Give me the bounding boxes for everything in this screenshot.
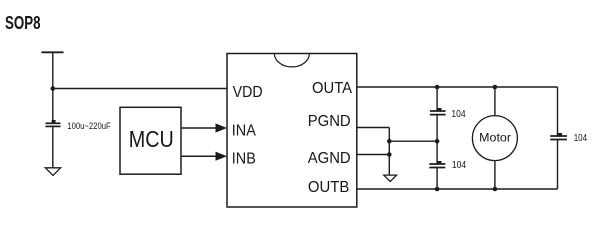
wire OUTB xyxy=(357,188,558,190)
node OUTB/motor xyxy=(493,187,498,192)
MCU box U2 xyxy=(120,107,181,174)
node branch/C2 xyxy=(435,139,440,144)
svg-text:104: 104 xyxy=(452,160,467,171)
svg-text:PGND: PGND xyxy=(308,113,351,130)
node OUTB/C3 xyxy=(435,187,440,192)
svg-text:AGND: AGND xyxy=(308,150,351,167)
node OUTA/C2 xyxy=(435,85,440,90)
capacitor C4 right 104 xyxy=(550,87,567,189)
node PGND/branch xyxy=(387,139,392,144)
node OUTA/motor xyxy=(493,85,498,90)
wire INA with arrow xyxy=(181,123,227,132)
wire PGND xyxy=(357,128,390,176)
power rail VCC bar xyxy=(42,51,64,53)
motor M1 xyxy=(472,87,517,189)
wire INB with arrow xyxy=(181,152,227,161)
svg-text:OUTA: OUTA xyxy=(312,80,352,97)
wire power vertical upper xyxy=(52,52,54,123)
wire cap to ground xyxy=(52,126,54,167)
svg-text:SOP8: SOP8 xyxy=(5,13,41,33)
svg-text:104: 104 xyxy=(451,109,466,120)
wire PGND branch to caps xyxy=(389,140,437,142)
svg-text:100u~220uF: 100u~220uF xyxy=(67,121,111,131)
capacitor C1 plates xyxy=(46,120,61,126)
op-amp U1 SOP8 body xyxy=(227,54,357,208)
wire AGND xyxy=(357,154,390,156)
svg-text:VDD: VDD xyxy=(233,84,263,101)
wire OUTA xyxy=(357,86,558,88)
wire VDD horizontal xyxy=(53,88,227,90)
svg-text:Motor: Motor xyxy=(479,130,511,144)
ground left xyxy=(45,168,60,176)
capacitor C3 lower 104 xyxy=(429,141,445,189)
svg-text:INA: INA xyxy=(232,122,256,139)
svg-text:OUTB: OUTB xyxy=(308,179,350,196)
ground right xyxy=(384,175,397,181)
node AGND xyxy=(387,152,392,157)
capacitor C2 upper 104 xyxy=(430,87,446,141)
node VDD junction xyxy=(51,86,56,91)
svg-text:MCU: MCU xyxy=(129,126,174,152)
notch xyxy=(274,54,309,67)
svg-text:INB: INB xyxy=(232,151,256,168)
svg-text:104: 104 xyxy=(574,133,588,144)
